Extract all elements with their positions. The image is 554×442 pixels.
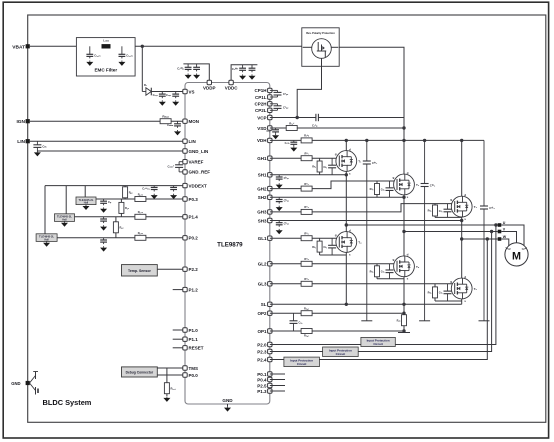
svg-text:SH3: SH3 [258,218,267,223]
wire P1.0 stub [173,329,185,331]
wire VDDEXT drop to hall sensor 1 [84,186,86,197]
svg-text:Lₑₘₙ: Lₑₘₙ [103,39,110,43]
wire phase W line [462,238,498,240]
wire Q6 source connector [435,300,462,302]
node W terminal pad [498,237,502,241]
wire protection charge-pump tap [297,58,321,117]
svg-text:CP2L: CP2L [255,108,267,113]
pin SH3 [268,218,272,222]
svg-text:GH3: GH3 [257,210,267,215]
node phase W junctions [460,237,463,240]
pin VDDC [229,80,233,84]
pin GH2 [268,186,272,190]
wire VDDP rail [183,64,209,83]
ground of C_VDDP1 [185,74,192,79]
transistor Q1 high-side U [345,140,347,150]
svg-text:P1.2: P1.2 [189,287,199,292]
svg-text:IGN: IGN [16,119,25,125]
wire GL2 gate line [270,263,397,265]
ground of C_BS1 [276,183,283,188]
capacitor C_BS2 [276,197,290,203]
svg-text:LIN: LIN [17,139,25,145]
ground of C_VDDEXT2 [170,194,177,199]
pin P2.5 [268,383,272,387]
capacitor C_filt1 [86,46,100,58]
transistor Q6 low-side W [450,275,477,303]
capacitor C_VDDEXT2 [170,186,177,192]
svg-text:Cₑₘₙ₁: Cₑₘₙ₁ [94,53,101,57]
svg-text:d: d [407,171,409,175]
svg-text:Rₚᵤ: Rₚᵤ [125,206,129,210]
svg-text:Temp. Sensor: Temp. Sensor [128,269,152,273]
motor M [505,243,528,266]
transistor Q2 high-side V [393,171,420,199]
svg-text:LIN: LIN [189,139,196,144]
wire debug to P0.0 [157,374,185,376]
svg-text:GND_REF: GND_REF [189,170,211,175]
terminal bar of C_DC1 [361,320,372,322]
ground of C_VDDC1 [239,74,246,79]
svg-text:VDDC: VDDC [225,86,239,91]
pin OP1 [268,329,272,333]
node SH3 junction [460,219,463,222]
svg-text:Rₚᵤ: Rₚᵤ [129,191,133,195]
ground of C_BS2 [276,206,283,211]
svg-text:g: g [450,198,452,202]
capacitor C_BS1 [276,175,290,181]
svg-text:Cᵈᶜ₁: Cᵈᶜ₁ [372,161,378,165]
pin LIN [183,139,187,143]
svg-text:VDDEXT: VDDEXT [189,183,208,188]
temp sensor box [122,265,158,276]
capacitor C_GS4 [323,238,336,255]
svg-text:d: d [349,147,351,151]
ground of C_VSD [272,134,279,139]
ground of hall sensor 3 [43,241,50,246]
ground of C_VDH [290,146,297,151]
svg-text:P1.0: P1.0 [189,328,199,333]
svg-text:SH1: SH1 [258,173,267,178]
wire VSD line [270,127,404,129]
pin P0.1 [268,372,272,376]
ground of GND_LIN [34,151,41,156]
input protection circuit box C [284,357,320,367]
svg-text:Cᵇₛ₃: Cᵇₛ₃ [284,222,290,226]
wire GND_LIN line [37,150,185,152]
pin VDDP [207,80,211,84]
svg-text:OP2: OP2 [257,311,267,316]
resistor R_GS3 [434,204,436,218]
capacitor C_OP [290,313,304,331]
pin P1.3 [268,389,272,393]
wire IGN to MON [30,120,185,122]
wire Q4 source connector [320,254,347,256]
wire SH2 line [270,196,404,198]
wire P1.1 stub [173,338,185,340]
node IGN pad [26,119,30,123]
capacitor C_P0.2 [100,238,107,244]
capacitor C_GS6 [439,284,452,301]
svg-text:CP2H: CP2H [254,102,266,107]
wire VDDEXT drop to hall sensor 2 [65,186,67,214]
wire W sense to P2.4 [270,239,488,360]
wire VBAT down to diode [141,46,143,91]
wire protection output to drain rail [339,47,404,174]
wire U sense to P2.0 [270,225,496,345]
pin VAREF [183,160,187,164]
svg-text:Cᵥᵈᵈᶜ: Cᵥᵈᵈᶜ [232,67,238,71]
svg-text:Rₚ₀₂: Rₚ₀₂ [138,231,144,235]
resistor R_GL3 [301,277,312,286]
capacitor C_GS5 [381,264,394,279]
svg-text:GL2: GL2 [258,262,267,267]
svg-text:EMC Filter: EMC Filter [94,68,117,73]
svg-text:CP1L: CP1L [255,95,267,100]
resistor R_P1.4 series [135,210,146,219]
pin P1.0 [183,328,187,332]
svg-text:g: g [335,152,337,156]
node SH1 junction [345,173,348,176]
wire P1.2 stub [173,289,185,291]
svg-text:VBAT: VBAT [12,44,25,50]
capacitor C_VDDP2 [193,64,200,72]
wire GH3 gate line [270,204,455,212]
svg-text:GH2: GH2 [257,186,267,191]
wire VCP line [270,117,316,119]
wire V pad to motor [501,232,516,243]
node SL junctions [345,303,348,306]
pin VDDEXT [183,183,187,187]
svg-text:P2.3: P2.3 [257,349,267,354]
svg-text:P1.1: P1.1 [189,337,199,342]
svg-text:SL: SL [261,302,267,307]
wire Q3 source connector [435,216,462,218]
ground of C_MON [174,130,181,135]
resistor R_GH3 [301,205,312,214]
input protection circuit box B [323,347,359,357]
svg-text:MON: MON [189,119,200,124]
pin P2.2 [183,267,187,271]
svg-text:P2.0: P2.0 [257,342,267,347]
svg-text:P0.1: P0.1 [257,372,267,377]
pin VDH [268,138,272,142]
wire VDDEXT drop to hall sensor 3 [44,186,46,234]
ground of R_TMS [163,397,170,402]
svg-text:Cᵇₛ₁: Cᵇₛ₁ [284,176,290,180]
svg-text:VS: VS [189,89,195,94]
capacitor C_GS3 [439,204,452,218]
wire P0.1 stub [270,373,285,375]
resistor R_P0.3 series [135,192,146,201]
wire temp sensor to P2.2 [157,268,185,270]
svg-text:Circuit: Circuit [373,342,383,346]
svg-text:Debug Connector: Debug Connector [126,371,154,375]
pin SH2 [268,195,272,199]
svg-text:d: d [349,228,351,232]
pin GND_LIN [183,149,187,153]
protection MOSFET symbol in circle [303,39,339,59]
wire hall3 to P0.2 [57,237,185,239]
wire debug to TMS [157,367,185,369]
svg-text:GND: GND [11,381,20,386]
svg-text:g: g [393,257,395,261]
GND chassis fork symbol [30,372,39,395]
node LIN pad [26,139,30,143]
capacitor C_VCP series [312,114,318,128]
svg-text:TLE9879: TLE9879 [217,242,243,249]
svg-text:Cᵥᶜₚ: Cᵥᶜₚ [312,123,318,127]
wire phase V line [404,231,498,233]
capacitor C_VDH [285,140,298,146]
ground of C_BS3 [276,229,283,234]
wire phase2 column upper [403,195,405,256]
ground of C_filt2 [118,61,125,66]
wire U pad to motor [501,225,524,248]
svg-text:Dᵣ: Dᵣ [144,83,147,87]
ground of hall sensor 2 [61,221,68,226]
pin GH3 [268,210,272,214]
wire P2.5 stub [270,385,285,387]
svg-text:VCP: VCP [257,115,266,120]
pin GL1 [268,236,272,240]
svg-text:g: g [393,176,395,180]
pin P1.4 [183,215,187,219]
svg-text:Circuit: Circuit [297,362,307,366]
debug connector box [122,367,158,377]
terminal bar of C_DC3 [479,320,490,322]
wire LIN to LIN pin [30,140,185,142]
wire GL1 gate line [270,237,340,239]
svg-text:Cᵥᵈᵈₑₓₜ: Cᵥᵈᵈₑₓₜ [142,186,150,190]
svg-text:RESET: RESET [189,346,204,351]
svg-text:Cᵥₐᵣₑᶠ: Cᵥₐᵣₑᶠ [167,164,174,168]
svg-text:Cᶜₚ₁: Cᶜₚ₁ [283,92,289,96]
resistor R_pullup1 [124,186,126,199]
pin CP1H [268,88,272,92]
node V terminal pad [498,230,502,234]
wire GL3 gate line [270,283,455,285]
svg-text:P0.4: P0.4 [257,377,267,382]
wire GH1 gate line [270,157,340,159]
wire W pad to motor [501,239,509,248]
resistor R_GL2 [301,257,312,266]
resistor R_GL1 [301,232,312,241]
pin VS [183,89,187,93]
svg-text:Cₘₒₙ: Cₘₒₙ [167,123,174,127]
resistor R_MON [160,115,171,124]
svg-text:Cᵥₛ₂: Cᵥₛ₂ [166,93,172,97]
pin P0.2 [183,236,187,240]
resistor R_OP1 [301,329,312,334]
ground of C_P0.2 [100,246,107,251]
pin GND_REF [183,170,187,174]
reverse polarity protection box [302,28,339,67]
capacitor C_GS2 [381,181,394,197]
wire phase1 column lower [345,252,347,304]
resistor R_GH2 [301,182,312,191]
IC U1 TLE9879 body [185,83,270,405]
node U terminal pad [498,223,502,227]
resistor R_pullup2 [120,199,122,217]
capacitor C_P0.3 [100,199,112,205]
resistor R_GS6 [434,284,436,301]
svg-text:Hall: Hall [84,202,89,205]
capacitor C_VS2 [166,92,179,99]
node phase V junctions [402,230,405,233]
capacitor C_DC1 [363,140,378,320]
capacitor C_VDDC2 [249,65,256,73]
svg-text:P2.2: P2.2 [189,267,199,272]
ground of C_VS2 [172,100,179,105]
svg-text:Cᵥₛᵈ: Cᵥₛᵈ [267,130,272,133]
wire diode to VS pin [151,91,185,93]
svg-text:Cᶜₚ₂: Cᶜₚ₂ [283,105,289,109]
resistor R_GS4 [319,238,321,255]
svg-text:Hall: Hall [44,239,49,242]
svg-text:P1.4: P1.4 [189,215,199,220]
capacitor C_VSD [267,128,279,134]
wire Q5 source connector [377,278,404,280]
pin P0.4 [268,377,272,381]
capacitor C_CP2 bracket [270,104,289,111]
wire VDDEXT rail [45,185,185,187]
ground of hall sensor 1 [83,205,90,210]
pin P1.1 [183,337,187,341]
terminal bar of C_DC2 [419,320,430,322]
pin CP2H [268,102,272,106]
svg-text:Cᵈᶜ₃: Cᵈᶜ₃ [489,206,495,210]
resistor R_P0.2 series [135,231,146,240]
ground of IC GND [227,404,229,406]
svg-text:d: d [407,253,409,257]
pin OP2 [268,311,272,315]
wire SH3 line [270,220,462,222]
capacitor C_GS1 [323,158,336,175]
transistor Q5 low-side V [393,253,420,281]
resistor R_shunt [403,304,405,332]
svg-text:Cᵥᵈᵈₚ: Cᵥᵈᵈₚ [177,66,184,70]
svg-text:P0.2: P0.2 [189,236,199,241]
hall sensor U2 TLE4945 [55,214,75,222]
svg-text:P2.5: P2.5 [257,383,267,388]
node SH2 junction [402,196,405,199]
resistor R_GH1 [301,152,312,161]
svg-text:Rₚ₀₃: Rₚ₀₃ [138,192,144,196]
svg-text:P1.3: P1.3 [257,389,267,394]
pin P2.0 [268,342,272,346]
wire phase1 column upper [345,171,347,231]
svg-text:GL3: GL3 [258,282,267,287]
capacitor C_P1.4 [100,217,107,223]
pin VCP [268,115,272,119]
node VCP tap junction [296,116,299,119]
resistor R_GS5 [376,264,378,279]
input protection circuit box A [361,337,395,346]
svg-text:Rev. Polarity Protection: Rev. Polarity Protection [306,31,335,35]
svg-text:Rₒₚ₂: Rₒₚ₂ [304,307,310,311]
capacitor C_VDDC1 [232,65,246,73]
pin P0.3 [183,197,187,201]
terminal bar of R_shunt [398,332,410,334]
resistor R_pullup3 [115,217,117,238]
pin CP2L [268,108,272,112]
node OP1 junction [402,329,405,332]
svg-text:d: d [464,193,466,197]
wire OP1 line [270,330,404,332]
wire hall2 to P1.4 [75,216,186,218]
pin SL [268,302,272,306]
pin CP1L [268,95,272,99]
wire OP2 line [270,312,404,314]
svg-text:P2.4: P2.4 [257,357,267,362]
svg-text:Hall: Hall [62,219,67,222]
ground of C_filt1 [86,61,93,66]
capacitor C_BS3 [276,221,290,227]
node phase U junctions [345,223,348,226]
pin MON [183,119,187,123]
diode D_rev [142,83,151,95]
node drain rail junctions [345,139,348,142]
hall sensor U3 TLE4945 [36,234,57,242]
svg-text:Cₑₘₙ₂: Cₑₘₙ₂ [126,53,133,57]
svg-text:Rᴳ₄: Rᴳ₄ [304,232,309,236]
resistor R_TMS pulldown [166,368,168,396]
wire hall1 to P0.3 [96,198,185,200]
svg-text:GND_LIN: GND_LIN [189,149,209,154]
transistor Q3 high-side W [461,140,463,196]
capacitor C_VDDP1 [177,64,191,72]
wire VDDC rail [231,65,257,83]
svg-text:Rₒₚ₁: Rₒₚ₁ [304,334,309,338]
svg-text:T₄: T₄ [358,241,362,245]
pin P1.2 [183,287,187,291]
capacitor C_VDDEXT1 [142,186,157,192]
wire VBAT rail [30,45,302,47]
resistor R_GS2 [376,181,378,197]
svg-text:Cᵥₛ₁: Cᵥₛ₁ [153,93,159,97]
transistor Q4 low-side U [335,228,362,256]
pin VSD [268,126,272,130]
svg-text:Rᴳ₁: Rᴳ₁ [304,152,308,156]
ground of C_P1.4 [100,225,107,230]
svg-text:Cᵈᶜ₂: Cᵈᶜ₂ [430,184,436,188]
svg-text:Circuit: Circuit [336,352,346,356]
resistor R_OP2 [301,307,312,316]
pin GH1 [268,156,272,160]
resistor R_VSD [286,121,297,130]
wire phase3 column lower [461,299,463,304]
wire phase2 column lower [403,277,405,305]
svg-text:CP1H: CP1H [254,88,266,93]
pin P0.0 [183,373,187,377]
svg-text:d: d [464,275,466,279]
wire GH2 gate line [270,181,397,189]
wire SH1 line [270,174,347,176]
svg-text:VDDP: VDDP [203,86,216,91]
ground of C_VS1 [159,100,166,105]
svg-text:P0.3: P0.3 [189,197,199,202]
pin GL2 [268,262,272,266]
svg-text:M: M [512,250,521,262]
svg-text:GND: GND [222,398,233,403]
capacitor C_LIN [33,141,47,151]
node GND pad [26,381,30,385]
capacitor C_VS1 [153,92,166,99]
node VBAT pad [26,44,30,48]
capacitor C_DC2 [421,140,436,320]
svg-text:GL1: GL1 [258,236,267,241]
svg-text:BLDC System: BLDC System [43,398,92,407]
